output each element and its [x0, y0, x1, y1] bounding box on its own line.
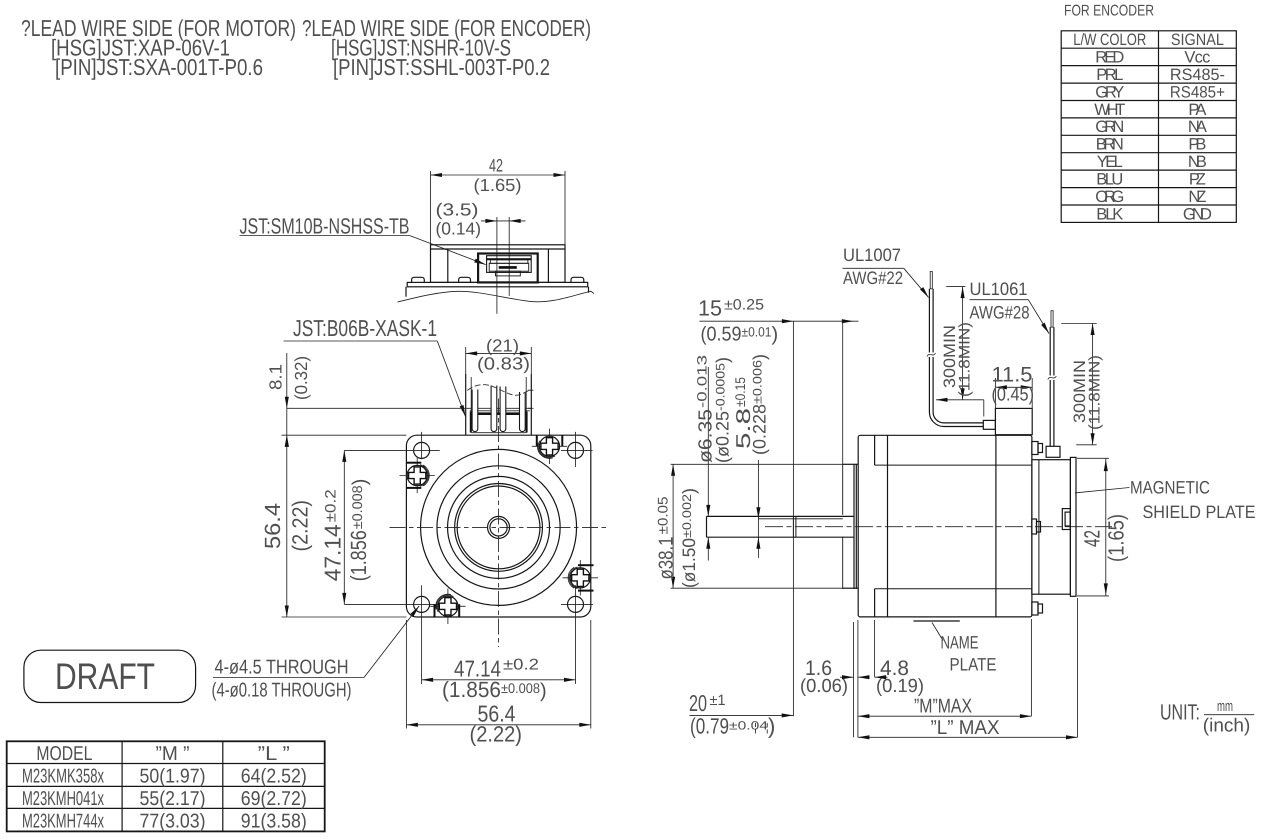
label UL1007 AWG#22 with leader [843, 245, 931, 299]
svg-text:”L ”: ”L ” [258, 743, 290, 765]
wire2 terminal block [1046, 446, 1060, 457]
label MAGNETIC SHIELD PLATE with leader [1075, 478, 1256, 523]
dimension 5.8±0.15 (rotated) [732, 354, 770, 558]
svg-text:±1: ±1 [710, 692, 726, 709]
svg-text:[PIN]JST:SSHL-003T-P0.2: [PIN]JST:SSHL-003T-P0.2 [333, 54, 550, 80]
label JST:SM10B-NSHSS-TB with leader [240, 214, 487, 267]
mounting plate (top view) [406, 282, 589, 296]
svg-text:(0.19): (0.19) [876, 676, 924, 697]
svg-text:NB: NB [1188, 153, 1207, 171]
encoder body [1032, 460, 1071, 595]
dimension 15±0.25 [698, 296, 858, 717]
dimension dia6.35 (rotated) [695, 355, 733, 561]
svg-text:PA: PA [1188, 101, 1206, 119]
unit note [1160, 698, 1254, 737]
shaft [707, 516, 854, 537]
svg-text:(2.22): (2.22) [470, 722, 523, 747]
svg-text:(11.8MIN): (11.8MIN) [1087, 355, 1104, 430]
svg-text:UNIT:: UNIT: [1160, 700, 1200, 725]
svg-text:UL1061: UL1061 [970, 279, 1028, 299]
svg-text:(0.06): (0.06) [800, 676, 848, 697]
svg-text:(21): (21) [486, 336, 519, 356]
screw top-right [532, 429, 567, 464]
svg-text:BLK: BLK [1096, 205, 1123, 223]
dimension 42 encoder (rotated) [1077, 458, 1129, 596]
svg-text:20: 20 [689, 690, 707, 716]
dimension 4.8 [875, 620, 924, 697]
svg-text:SIGNAL: SIGNAL [1171, 31, 1224, 49]
bottom dimension 47.14 [422, 656, 576, 703]
DRAFT stamp [24, 650, 196, 702]
svg-text:PZ: PZ [1189, 171, 1206, 189]
dimension 47.14 vertical [320, 450, 371, 604]
svg-text:SHIELD PLATE: SHIELD PLATE [1143, 502, 1256, 522]
svg-text:L/W COLOR: L/W COLOR [1073, 31, 1146, 49]
svg-text:GRN: GRN [1095, 118, 1124, 136]
dimension 20±1 [689, 690, 793, 739]
wire1 terminal block [983, 420, 995, 429]
svg-text:UL1007: UL1007 [843, 245, 901, 265]
dimension 11.5 cap [992, 364, 1035, 409]
screw bottom-right [563, 560, 598, 595]
wire2 (encoder leads) [1050, 311, 1054, 447]
screw top-left [400, 458, 435, 493]
svg-text:FOR ENCODER: FOR ENCODER [1064, 3, 1154, 20]
svg-text:(0.83): (0.83) [477, 354, 530, 374]
svg-text:(4-ø0.18 THROUGH): (4-ø0.18 THROUGH) [212, 680, 352, 702]
svg-text:[PIN]JST:SXA-001T-P0.6: [PIN]JST:SXA-001T-P0.6 [55, 54, 263, 80]
svg-text:M23KMK358x: M23KMK358x [22, 765, 104, 787]
pilot boss dia38.1 [843, 464, 859, 589]
svg-text:M23KMH041x: M23KMH041x [22, 788, 104, 810]
svg-text:64(2.52): 64(2.52) [241, 765, 307, 787]
dimension 300MIN wire2 [1061, 324, 1103, 445]
model table grid [7, 741, 325, 831]
plate bumps [412, 277, 425, 282]
hole crosshairs [344, 432, 593, 684]
svg-text:M23KMH744x: M23KMH744x [22, 810, 104, 832]
svg-text:RS485-: RS485- [1170, 66, 1225, 84]
wire1 break symbol [927, 353, 936, 358]
svg-text:(11.8MIN): (11.8MIN) [957, 322, 974, 397]
svg-text:NA: NA [1188, 118, 1207, 136]
svg-text:DRAFT: DRAFT [55, 656, 155, 697]
dimension (21) connector width [466, 336, 532, 375]
svg-text:(inch): (inch) [1203, 716, 1251, 737]
svg-text:NAME: NAME [941, 633, 979, 653]
concentric circles front [421, 449, 577, 605]
dimension 300MIN wire1 [936, 287, 984, 417]
connector B06B front view [287, 374, 534, 435]
dimension L MAX [858, 598, 1078, 739]
svg-text:YEL: YEL [1097, 153, 1123, 171]
label UL1061 AWG#28 with leader [970, 279, 1051, 335]
rear face screws [1032, 442, 1043, 616]
model table text [22, 743, 307, 833]
dimension M MAX [858, 619, 1032, 737]
dia38.1 extension lines [671, 463, 843, 465]
svg-text:91(3.58): 91(3.58) [241, 810, 307, 832]
svg-text:(0.14): (0.14) [436, 219, 482, 239]
svg-text:PB: PB [1188, 136, 1206, 154]
dimension 3.5 offset [436, 200, 526, 314]
svg-text:”M ”: ”M ” [156, 743, 190, 765]
centerline side view [765, 526, 1112, 528]
svg-text:NZ: NZ [1188, 188, 1206, 206]
svg-text:±0.25: ±0.25 [724, 297, 764, 314]
bottom dimension 56.4 [406, 620, 590, 747]
motor body side view [858, 435, 1032, 617]
svg-text:±0.2: ±0.2 [503, 657, 539, 674]
svg-text:MODEL: MODEL [36, 743, 92, 765]
svg-text:(1.65): (1.65) [474, 175, 522, 195]
svg-text:15: 15 [698, 296, 722, 321]
nameplate mark [913, 620, 959, 622]
svg-text:69(2.72): 69(2.72) [241, 788, 307, 810]
svg-text:AWG#28: AWG#28 [970, 303, 1030, 323]
svg-text:AWG#22: AWG#22 [843, 268, 903, 288]
svg-text:(1.65): (1.65) [1104, 514, 1129, 562]
svg-text:MAGNETIC: MAGNETIC [1130, 478, 1210, 498]
wire1 (motor leads) [929, 272, 983, 427]
svg-text:PRL: PRL [1096, 66, 1123, 84]
svg-text:50(1.97): 50(1.97) [140, 765, 206, 787]
encoder table text [1073, 31, 1225, 223]
svg-text:PLATE: PLATE [950, 655, 997, 675]
svg-text:4-ø4.5 THROUGH: 4-ø4.5 THROUGH [215, 657, 349, 679]
break wave line (top view) [398, 291, 595, 302]
svg-text:ORG: ORG [1095, 188, 1124, 206]
dimension 1.6 boss [800, 622, 870, 737]
svg-text:55(2.17): 55(2.17) [140, 788, 206, 810]
svg-text:BLU: BLU [1096, 171, 1123, 189]
svg-text:42: 42 [489, 156, 503, 176]
screw bottom-left [430, 589, 465, 624]
label JST:B06B-XASK-1 with leader [284, 315, 468, 417]
svg-text:mm: mm [1217, 698, 1233, 715]
corner holes 4x [414, 442, 584, 612]
svg-text:8.1: 8.1 [266, 364, 286, 390]
svg-text:(0.32): (0.32) [291, 356, 311, 400]
svg-text:77(3.03): 77(3.03) [140, 810, 206, 832]
connector SM10B (top view, nested) [478, 254, 538, 283]
label 4-dia4.5 THROUGH with leader [212, 605, 421, 702]
svg-text:(2.22): (2.22) [288, 500, 313, 552]
centerline horizontal front [390, 526, 608, 528]
svg-text:RED: RED [1095, 49, 1124, 67]
dimension dia38.1 (rotated) [655, 464, 700, 588]
svg-text:”M”MAX: ”M”MAX [914, 696, 972, 718]
svg-text:JST:B06B-XASK-1: JST:B06B-XASK-1 [293, 315, 437, 341]
dimension 42 top [431, 156, 566, 245]
svg-text:JST:SM10B-NSHSS-TB: JST:SM10B-NSHSS-TB [240, 214, 410, 239]
front square body [406, 435, 590, 617]
svg-text:GND: GND [1183, 205, 1212, 223]
centerline vertical front [498, 399, 500, 648]
wire2 break symbol [1048, 376, 1057, 381]
corner screws 4x (circle + cross + thread arcs + ticks) [400, 429, 599, 624]
svg-text:BRN: BRN [1096, 136, 1124, 154]
svg-text:RS485+: RS485+ [1170, 83, 1225, 101]
svg-text:(0.45): (0.45) [992, 385, 1035, 406]
magnetic shield plate [1070, 457, 1076, 596]
motor connector cap [995, 408, 1032, 434]
label NAME PLATE with leader [932, 623, 997, 675]
svg-text:GRY: GRY [1095, 83, 1124, 101]
svg-text:42: 42 [1080, 530, 1105, 547]
shield tab [1062, 509, 1070, 530]
encoder table grid [1061, 31, 1236, 223]
svg-text:56.4: 56.4 [260, 503, 285, 549]
dimension 8.1 / 56.4 vertical [260, 353, 406, 617]
svg-text:11.5: 11.5 [992, 364, 1033, 387]
svg-text:Vcc: Vcc [1184, 49, 1210, 67]
motor housing outline (top view) [431, 245, 566, 283]
svg-text:”L” MAX: ”L” MAX [931, 717, 1000, 739]
svg-text:WHT: WHT [1094, 101, 1125, 119]
svg-text:(3.5): (3.5) [436, 200, 479, 220]
